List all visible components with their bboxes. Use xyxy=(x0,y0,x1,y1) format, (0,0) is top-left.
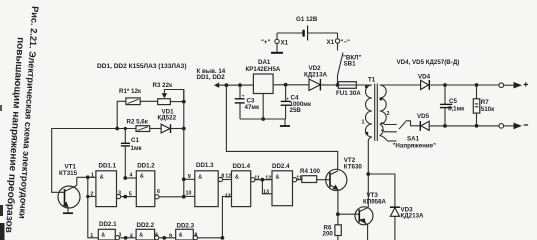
wire pin13 from DD2.3 xyxy=(222,196,231,238)
svg-text:FU1 30А: FU1 30А xyxy=(336,90,361,97)
regulator DA1 xyxy=(246,59,281,119)
wire primary bottom to VT3 drain xyxy=(367,140,369,207)
wire R2 row left + down to VT1 base xyxy=(52,129,118,193)
tap lead 2 xyxy=(381,130,397,132)
wire +5V down to VT2 collector xyxy=(226,85,337,170)
wire DD2.1 out xyxy=(120,237,137,239)
svg-text:13: 13 xyxy=(263,189,269,195)
node DD2 junction b xyxy=(162,236,166,240)
transistor VT3 xyxy=(355,192,387,240)
gate DD2.3 xyxy=(169,223,197,240)
switch SA1 xyxy=(393,121,437,150)
svg-text:DD1.2: DD1.2 xyxy=(137,163,155,170)
svg-text:8: 8 xyxy=(194,232,197,238)
svg-text:R7: R7 xyxy=(481,99,489,106)
wire DA1 out to C4/VD2 xyxy=(273,84,309,86)
wire to pin 2 xyxy=(88,196,96,198)
page edge mark 1 xyxy=(0,205,3,216)
wire VT1 collector to DD1.1 inputs xyxy=(77,176,96,178)
resistor R1 xyxy=(117,88,158,129)
diode VD3 xyxy=(368,174,424,240)
node C3 junction xyxy=(238,83,242,87)
svg-text:25В: 25В xyxy=(290,107,302,114)
potentiometer R3 xyxy=(153,82,184,105)
wire DD2.4 pin13 xyxy=(262,180,272,194)
wire DD1.2 out xyxy=(159,196,184,198)
svg-text:&: & xyxy=(198,174,202,180)
svg-text:X1: X1 xyxy=(327,39,335,46)
svg-text:DD2.3: DD2.3 xyxy=(177,223,195,230)
node C1 tap junction xyxy=(124,127,127,130)
node fb bottom junction xyxy=(182,195,186,199)
fuse FU1 xyxy=(336,82,372,97)
svg-text:&: & xyxy=(179,233,183,239)
vertical feedback wire xyxy=(183,90,185,197)
node DD2.4 in junction xyxy=(261,178,265,182)
svg-text:200: 200 xyxy=(323,231,334,238)
+5V rail arrow to pin14 xyxy=(197,68,254,88)
node DD2.3 out junction xyxy=(221,236,225,240)
svg-text:"Напряжение": "Напряжение" xyxy=(393,143,437,150)
node DD2 junction a xyxy=(124,236,128,240)
page edge mark 2 xyxy=(0,223,5,240)
node C1/pin5 junction xyxy=(123,195,127,199)
capacitor C3 xyxy=(235,85,260,119)
capacitor C4 xyxy=(281,85,312,119)
node C5 top junction xyxy=(443,83,447,87)
terminal X1 plus xyxy=(261,33,289,53)
svg-text:510к: 510к xyxy=(481,106,495,113)
tap lead 3 xyxy=(388,140,397,142)
svg-text:"−": "−" xyxy=(341,39,351,46)
diode VD2 xyxy=(304,65,338,90)
diode VD4 xyxy=(418,74,501,90)
switch SB1 xyxy=(338,43,362,85)
svg-text:DD1.1: DD1.1 xyxy=(99,163,117,170)
svg-text:Т1: Т1 xyxy=(368,77,376,84)
node drain junction xyxy=(366,172,370,176)
svg-text:3: 3 xyxy=(118,191,121,197)
wire pin9 xyxy=(184,178,195,180)
svg-text:DD1.3: DD1.3 xyxy=(196,162,214,169)
svg-text:G1 12В: G1 12В xyxy=(296,16,318,23)
svg-text:VD5: VD5 xyxy=(417,113,430,120)
gnd rail under DA1 xyxy=(240,118,286,120)
svg-text:5: 5 xyxy=(129,191,132,197)
gate DD2.4 xyxy=(263,163,302,206)
svg-text:КД213А: КД213А xyxy=(304,72,328,79)
svg-text:2: 2 xyxy=(90,191,93,197)
svg-text:КД213А: КД213А xyxy=(401,213,425,220)
svg-text:47мк: 47мк xyxy=(245,104,260,111)
svg-text:4: 4 xyxy=(130,233,133,239)
svg-text:КТ315: КТ315 xyxy=(59,170,78,177)
node R3 right junction xyxy=(182,100,186,104)
tap lead 1 xyxy=(381,123,397,125)
svg-text:КР142ЕН5А: КР142ЕН5А xyxy=(246,66,281,73)
node VT2 emitter junction xyxy=(336,212,340,216)
svg-text:SA1: SA1 xyxy=(407,136,420,143)
page edge tick xyxy=(0,105,2,111)
svg-text:VD4: VD4 xyxy=(418,74,431,81)
svg-text:SB1: SB1 xyxy=(344,61,357,68)
svg-text:9: 9 xyxy=(188,174,191,180)
svg-text:9: 9 xyxy=(169,233,172,239)
capacitor C5 xyxy=(440,85,465,126)
svg-text:С1: С1 xyxy=(131,137,139,144)
resistor R6 xyxy=(323,214,342,240)
svg-text:DD1, DD2 К155ЛА3 (133ЛА3): DD1, DD2 К155ЛА3 (133ЛА3) xyxy=(97,63,187,70)
phase dot primary xyxy=(365,85,368,88)
svg-text:1: 1 xyxy=(90,233,93,239)
node pin4 tee xyxy=(123,176,127,180)
svg-text:КТ630: КТ630 xyxy=(344,164,363,171)
svg-text:VD4, VD5 КД257(В-Д): VD4, VD5 КД257(В-Д) xyxy=(397,59,460,66)
wire DD2.2 out xyxy=(159,237,176,239)
capacitor C1 xyxy=(121,129,143,179)
node collector junction xyxy=(86,175,90,179)
svg-text:&: & xyxy=(101,233,105,239)
node R1 drop junction xyxy=(115,127,119,131)
svg-text:0,1мк: 0,1мк xyxy=(448,106,465,113)
wire pin4 xyxy=(125,177,136,179)
svg-text:11: 11 xyxy=(296,175,302,181)
svg-text:+: + xyxy=(242,94,245,99)
gate DD1.1 xyxy=(90,163,121,207)
resistor R4 xyxy=(297,168,330,183)
svg-text:DD1, DD2: DD1, DD2 xyxy=(197,74,226,81)
svg-text:6: 6 xyxy=(155,232,158,238)
ground symbol xyxy=(280,119,290,126)
wire DD2.3 out xyxy=(198,237,223,239)
svg-text:R3 22к: R3 22к xyxy=(153,82,174,89)
diode VD5 xyxy=(417,113,501,131)
wire to VT3 gate xyxy=(338,213,360,215)
svg-text:X1: X1 xyxy=(281,40,289,47)
svg-text:&: & xyxy=(276,174,280,180)
svg-text:4: 4 xyxy=(130,173,133,179)
battery G1 xyxy=(277,26,338,41)
svg-text:&: & xyxy=(140,174,144,180)
transistor VT1 xyxy=(58,164,80,214)
transformer T1 xyxy=(362,77,421,142)
gate DD1.3 xyxy=(186,162,225,207)
wire DD1.3 out to DD1.4 xyxy=(223,179,232,181)
node +5V junction xyxy=(225,83,229,87)
svg-text:DD1.4: DD1.4 xyxy=(233,163,251,170)
svg-text:КД522: КД522 xyxy=(158,115,177,122)
node C4 junction xyxy=(284,83,288,87)
svg-text:1: 1 xyxy=(362,120,365,126)
node R7 bottom junction xyxy=(475,124,479,128)
wire pin10 xyxy=(184,195,195,197)
svg-text:8: 8 xyxy=(221,173,224,179)
gate DD2.2 xyxy=(130,222,159,240)
svg-text:&: & xyxy=(235,174,239,180)
svg-text:2: 2 xyxy=(387,111,390,117)
node R7 top junction xyxy=(475,83,479,87)
primary winding xyxy=(366,85,373,137)
svg-text:10: 10 xyxy=(186,190,192,196)
svg-text:КП958А: КП958А xyxy=(363,198,387,205)
wire inputs tie down to DD2.1 xyxy=(88,177,99,238)
svg-text:6: 6 xyxy=(157,189,160,195)
node pin9 junction xyxy=(182,177,186,181)
svg-text:1: 1 xyxy=(91,173,94,179)
svg-text:R1* 12к: R1* 12к xyxy=(119,88,142,95)
wire DD1.1 out to DD1.2 xyxy=(121,196,137,198)
transistor VT2 xyxy=(326,157,363,214)
wire DD1.4 out xyxy=(255,179,272,181)
node VD1 right junction xyxy=(182,127,186,131)
svg-text:&: & xyxy=(100,174,104,180)
svg-text:DD2.1: DD2.1 xyxy=(99,221,117,228)
terminal X1 minus xyxy=(327,33,351,46)
svg-text:R2 5,6к: R2 5,6к xyxy=(127,119,149,126)
svg-text:1мк: 1мк xyxy=(131,145,143,152)
svg-text:DD2.2: DD2.2 xyxy=(137,222,155,229)
resistor R2 xyxy=(117,119,161,132)
node SB1/fuse junction xyxy=(336,83,340,87)
secondary top lead xyxy=(380,84,421,86)
svg-text:DD2.4: DD2.4 xyxy=(272,163,290,170)
node DA1 gnd junction xyxy=(261,117,265,121)
svg-text:&: & xyxy=(139,233,143,239)
svg-text:12: 12 xyxy=(265,175,271,181)
gate DD1.4 xyxy=(225,163,260,207)
svg-text:DA1: DA1 xyxy=(258,59,271,66)
svg-text:R4 100: R4 100 xyxy=(300,168,321,175)
svg-text:С5: С5 xyxy=(449,98,457,105)
output terminal plus xyxy=(499,82,528,89)
diode VD1 xyxy=(158,109,184,134)
core xyxy=(374,84,376,142)
svg-text:"+": "+" xyxy=(261,39,271,46)
node C5 bottom junction xyxy=(443,124,447,128)
gate DD2.1 xyxy=(90,221,121,240)
resistor R7 xyxy=(473,85,495,126)
gate DD1.2 xyxy=(129,163,160,207)
secondary winding xyxy=(380,85,387,136)
phase dot primary bottom xyxy=(365,132,368,135)
svg-text:11: 11 xyxy=(254,175,260,181)
phase dot secondary xyxy=(380,98,383,101)
node pin2 tee xyxy=(86,195,89,198)
svg-text:12: 12 xyxy=(225,174,231,180)
output terminal minus xyxy=(499,123,528,130)
